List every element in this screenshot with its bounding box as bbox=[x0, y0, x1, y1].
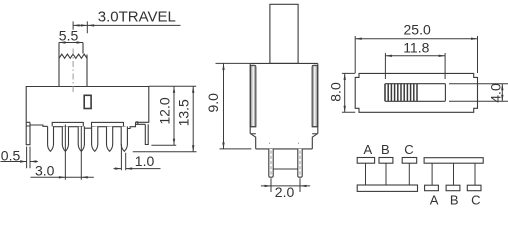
side view board line bbox=[273, 168, 298, 170]
front view body outline bbox=[26, 87, 149, 123]
schematic right pad C bbox=[467, 185, 481, 191]
dim 4.0 arrows bbox=[501, 84, 503, 102]
schematic right stems bbox=[432, 163, 475, 185]
dim 3.0 arrows bbox=[59, 176, 88, 178]
side view hidden pin dots bbox=[269, 142, 298, 144]
dim 3.0TRAVEL ticks bbox=[73, 21, 87, 33]
dim 5.5 arrows bbox=[59, 41, 83, 43]
dim 2.0 arrows bbox=[265, 185, 307, 187]
svg-text:A: A bbox=[430, 192, 439, 207]
dim 2.0 extension lines bbox=[271, 178, 300, 192]
dim 3.0 extension lines bbox=[65, 125, 81, 180]
svg-text:13.5: 13.5 bbox=[176, 99, 192, 126]
svg-text:3.0: 3.0 bbox=[35, 162, 55, 178]
front view pin 6 bbox=[121, 126, 127, 151]
front view hole rect bbox=[84, 95, 91, 108]
front view right lug bbox=[145, 124, 148, 144]
front view bottom profile right bbox=[124, 122, 136, 128]
dim 4.0 extension lines bbox=[449, 84, 508, 102]
dim 3.0 line bbox=[31, 176, 94, 178]
front view pin 1 bbox=[48, 126, 54, 151]
dim 2.0 line bbox=[261, 185, 310, 187]
dim 8.0 line bbox=[344, 73, 346, 112]
dim 0.5 extension lines bbox=[27, 147, 30, 169]
dim 4.0 line bbox=[501, 84, 503, 102]
dim 1.0 arrows bbox=[115, 167, 132, 169]
front view pin 3 bbox=[78, 126, 84, 151]
front view plateau gap bbox=[83, 127, 91, 129]
schematic left stems bbox=[366, 163, 410, 185]
dim 12.0 line bbox=[173, 86, 175, 145]
schematic left common bar bbox=[357, 185, 417, 191]
side view left chamfer bbox=[251, 134, 256, 149]
side view right band lower lines bbox=[312, 127, 318, 134]
svg-text:1.0: 1.0 bbox=[135, 153, 155, 169]
front view left lug bbox=[26, 122, 30, 144]
side view body left edge bbox=[249, 63, 251, 133]
dim 1.0 extension lines bbox=[121, 144, 125, 170]
dim 3.0TRAVEL line bbox=[73, 24, 180, 26]
schematic right pad B bbox=[446, 185, 460, 191]
dim 9.0 arrows bbox=[222, 63, 224, 148]
dim 3.0TRAVEL arrows bbox=[73, 24, 94, 26]
svg-text:C: C bbox=[471, 192, 480, 207]
front view pin 4 bbox=[92, 126, 98, 151]
side view pin right slot bbox=[299, 151, 301, 177]
svg-text:A: A bbox=[364, 142, 373, 157]
svg-text:11.8: 11.8 bbox=[403, 40, 429, 56]
schematic right pad A bbox=[425, 185, 439, 191]
dim 12.0 bottom extension bbox=[151, 144, 176, 146]
front view pin 2 bbox=[62, 126, 68, 151]
svg-text:9.0: 9.0 bbox=[205, 93, 221, 113]
dim 12.0 13.5 top extension bbox=[149, 85, 196, 87]
side view body bottom bbox=[256, 148, 313, 150]
side view body top bbox=[250, 62, 318, 64]
dim 12.0 arrows bbox=[173, 86, 175, 145]
dim 5.5 line bbox=[59, 42, 83, 44]
dim 25.0 extension lines bbox=[355, 36, 477, 73]
dim 8.0 extension lines bbox=[342, 73, 355, 112]
svg-text:4.0: 4.0 bbox=[487, 83, 503, 103]
dim 25.0 line bbox=[355, 38, 477, 40]
side view knob bbox=[270, 4, 298, 63]
front view knob bbox=[59, 43, 87, 87]
svg-text:B: B bbox=[381, 142, 390, 157]
svg-text:12.0: 12.0 bbox=[157, 97, 173, 124]
side view left band lower lines bbox=[250, 127, 256, 134]
side view right band highlight bbox=[314, 67, 316, 127]
dim 1.0 line bbox=[114, 168, 161, 170]
schematic right common bar bbox=[424, 158, 483, 164]
schematic left pad B bbox=[379, 158, 393, 164]
front view right step box bbox=[136, 122, 146, 124]
dim 13.5 bottom extension bbox=[133, 151, 197, 153]
front view knob centerline bbox=[72, 49, 74, 95]
side view pin right bbox=[298, 149, 302, 177]
front view bottom profile left bbox=[30, 125, 48, 126]
svg-text:B: B bbox=[450, 192, 459, 207]
svg-text:C: C bbox=[404, 142, 413, 157]
side view body right edge bbox=[317, 63, 319, 133]
svg-text:5.5: 5.5 bbox=[59, 27, 79, 43]
side view left band gray bbox=[250, 65, 256, 127]
dim 8.0 arrows bbox=[344, 73, 346, 112]
svg-text:3.0TRAVEL: 3.0TRAVEL bbox=[98, 9, 176, 26]
svg-text:2.0: 2.0 bbox=[275, 184, 295, 200]
dim 25.0 arrows bbox=[355, 38, 477, 40]
side view pin left bbox=[269, 149, 273, 177]
side view right chamfer bbox=[312, 134, 317, 149]
dim 9.0 top extension bbox=[216, 62, 251, 64]
front view pin 5 bbox=[107, 126, 113, 151]
dim 13.5 line bbox=[192, 86, 194, 151]
front view plateau 1 bbox=[52, 122, 83, 126]
dim 9.0 bottom extension bbox=[220, 148, 252, 150]
schematic left pad C bbox=[402, 158, 417, 164]
top view knob hatch bbox=[385, 84, 417, 102]
side view right band gray bbox=[312, 65, 318, 127]
dim 9.0 line bbox=[223, 63, 225, 148]
schematic left pad A bbox=[357, 158, 374, 164]
svg-text:25.0: 25.0 bbox=[404, 22, 431, 38]
side view pin left slot bbox=[270, 151, 272, 177]
dim 0.5 leader line bbox=[1, 161, 38, 163]
side view left band highlight bbox=[252, 67, 254, 127]
dim 0.5 arrows bbox=[20, 160, 36, 162]
front view plateau 2 bbox=[92, 122, 124, 126]
top view outer rect bbox=[355, 73, 477, 112]
dim 11.8 line bbox=[385, 55, 445, 57]
dim 11.8 extension lines bbox=[385, 53, 445, 79]
dim 11.8 arrows bbox=[385, 55, 445, 57]
svg-text:8.0: 8.0 bbox=[328, 82, 344, 102]
svg-text:0.5: 0.5 bbox=[1, 147, 21, 163]
dim 13.5 arrows bbox=[192, 86, 194, 151]
top view slot bbox=[385, 84, 445, 102]
